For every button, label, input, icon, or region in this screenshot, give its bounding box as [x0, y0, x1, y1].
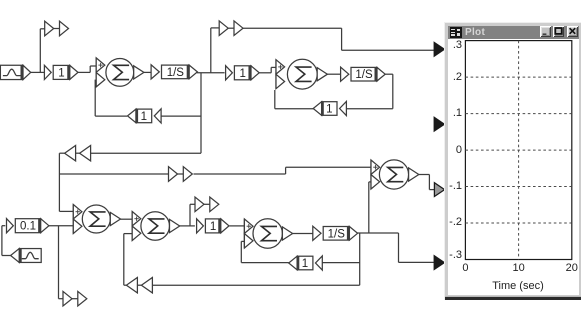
svg-text:1/S: 1/S — [167, 67, 185, 79]
svg-text:1: 1 — [210, 221, 216, 233]
svg-text:1: 1 — [239, 68, 245, 80]
svg-text:1: 1 — [58, 67, 64, 79]
svg-text:1: 1 — [302, 258, 308, 270]
svg-text:0.1: 0.1 — [20, 221, 36, 233]
svg-text:1/S: 1/S — [355, 69, 373, 81]
svg-text:1: 1 — [326, 104, 332, 116]
svg-text:1: 1 — [141, 111, 147, 123]
svg-text:1/S: 1/S — [328, 228, 346, 240]
